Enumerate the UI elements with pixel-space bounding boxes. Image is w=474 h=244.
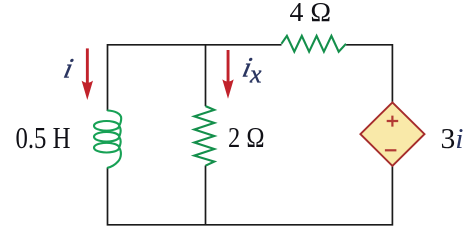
svg-text:0.5 H: 0.5 H <box>16 120 71 155</box>
svg-text:3i: 3i <box>441 123 464 155</box>
svg-text:4 Ω: 4 Ω <box>290 0 332 27</box>
dependent source U1 3i (diamond) <box>360 102 424 165</box>
inductor L1 0.5 H (green coil) <box>94 111 121 168</box>
wire top-right corner (top rail right segment + right vertical upper) <box>346 45 392 103</box>
current arrow i (red, down) <box>82 48 93 100</box>
wire middle vertical upper <box>205 45 207 106</box>
wire bottom rail with left and right risers <box>108 166 393 225</box>
wire top-left L (left vertical upper + top rail left segment) <box>108 45 282 111</box>
resistor R2 4 ohm (horizontal zigzag) <box>281 36 346 52</box>
svg-text:2 Ω: 2 Ω <box>228 122 265 154</box>
current arrow ix (red, down) <box>222 50 233 99</box>
minus sign of source <box>385 149 397 151</box>
plus sign of source <box>387 116 399 127</box>
svg-text:x: x <box>249 60 262 89</box>
resistor R1 2 ohm (vertical zigzag) <box>194 106 214 166</box>
wire middle vertical lower <box>205 166 207 225</box>
svg-text:i: i <box>61 54 76 85</box>
